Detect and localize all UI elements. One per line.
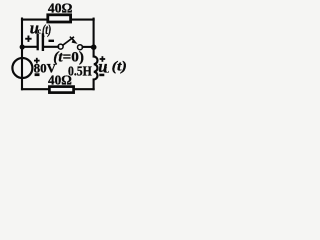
inductor L1 coil (94, 57, 98, 80)
label + capacitor (25, 36, 31, 42)
wire top right segment (72, 19, 94, 21)
svg-text:L: L (104, 66, 109, 74)
svg-text:(t): (t) (42, 23, 51, 38)
wire bottom right segment (75, 88, 94, 90)
node junction dot right (91, 44, 97, 50)
label - inductor (99, 74, 104, 77)
label + inductor (100, 56, 106, 62)
label + source (34, 58, 40, 64)
svg-text:c: c (38, 27, 42, 36)
svg-text:(t): (t) (112, 59, 127, 75)
wire top left segment (22, 19, 47, 21)
switch closing arrow (70, 37, 78, 44)
label - source (35, 73, 40, 76)
label - capacitor (49, 40, 55, 42)
node junction dot left (20, 44, 25, 49)
wire right vertical bottom part (93, 80, 95, 90)
svg-text:(t=0): (t=0) (53, 50, 84, 66)
wire middle switch to right node (83, 46, 94, 48)
wire left vertical (21, 19, 23, 90)
source U1 circle (12, 58, 32, 78)
resistor R1 top 40ohm box (48, 15, 71, 22)
wire middle left of capacitor (22, 46, 37, 48)
svg-text:0.5H: 0.5H (68, 64, 92, 79)
svg-text:40Ω: 40Ω (48, 1, 73, 16)
switch S1 right contact (78, 45, 83, 50)
capacitor C1 right plate (42, 33, 44, 51)
capacitor C1 left plate (37, 34, 39, 51)
wire middle capacitor to switch (44, 46, 58, 48)
switch blade (63, 37, 74, 45)
switch S1 left contact (58, 44, 63, 49)
resistor R2 bottom 40ohm box (49, 87, 73, 93)
wire bottom left segment (22, 88, 49, 90)
wire right vertical top part (93, 19, 95, 57)
